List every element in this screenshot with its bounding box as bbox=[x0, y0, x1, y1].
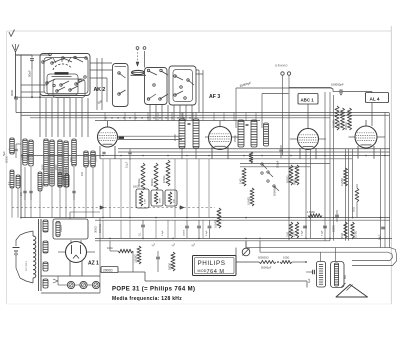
label mains voltage bbox=[26, 260, 28, 271]
svg-text:100pF: 100pF bbox=[275, 160, 279, 168]
coil L1 bbox=[10, 138, 15, 154]
resistor 5000 det2 bbox=[286, 165, 293, 185]
coil L13 bbox=[38, 172, 42, 191]
wire rail x345 bbox=[345, 149, 347, 241]
PHILIPS nameplate bbox=[193, 256, 237, 276]
capacitor 50pF bbox=[16, 55, 34, 97]
resistor 10000 v bbox=[134, 246, 141, 264]
mains plug bbox=[13, 235, 21, 278]
wire rail x330 bbox=[329, 92, 331, 241]
wire top bus left bbox=[32, 55, 50, 97]
label 2pF bbox=[97, 99, 104, 105]
svg-text:500000Ω: 500000Ω bbox=[258, 256, 269, 260]
caption IF bbox=[112, 296, 182, 302]
tuning gang dashed line bbox=[12, 206, 215, 209]
resistor 500 det2 bbox=[293, 165, 299, 185]
wire bus y272 bbox=[100, 272, 307, 288]
coil L9 bbox=[84, 151, 89, 167]
svg-text:0.5MΩ: 0.5MΩ bbox=[246, 197, 250, 205]
coil L8 bbox=[72, 139, 77, 166]
svg-text:50µF: 50µF bbox=[378, 234, 381, 240]
svg-text:0.1µF: 0.1µF bbox=[126, 161, 129, 168]
svg-text:764 M: 764 M bbox=[207, 269, 225, 275]
wire rail x352 bbox=[352, 149, 354, 218]
svg-text:PHILIPS: PHILIPS bbox=[198, 260, 226, 267]
transformer secondary S3 bbox=[43, 262, 48, 271]
resistor 0.5M det bbox=[246, 188, 254, 206]
svg-text:4MΩ: 4MΩ bbox=[341, 233, 344, 238]
wire lamp bus bbox=[53, 276, 92, 285]
coil L12 bbox=[16, 175, 20, 188]
svg-text:0.1µF: 0.1µF bbox=[321, 230, 323, 236]
coil L11 bbox=[10, 170, 14, 188]
transformer T2 core+primary bbox=[20, 219, 41, 291]
tube AL4 V4 bbox=[349, 120, 386, 159]
wire heater bbox=[41, 276, 100, 293]
capacitor 100000pF bbox=[289, 83, 372, 96]
capacitor 1uF out bbox=[306, 270, 314, 283]
svg-text:50pF: 50pF bbox=[27, 70, 31, 77]
label AF3 bbox=[209, 94, 220, 100]
wire bus y120 bbox=[95, 120, 260, 122]
wire bus y115 bbox=[21, 114, 389, 116]
svg-text:10000Ω: 10000Ω bbox=[134, 254, 137, 263]
svg-text:1µF: 1µF bbox=[307, 278, 311, 283]
resistor 1M lower bbox=[286, 222, 293, 238]
capacitor e bbox=[301, 226, 307, 236]
wire bus ticks bbox=[105, 113, 256, 121]
capacitor bias bbox=[156, 251, 160, 272]
svg-text:3·2: 3·2 bbox=[20, 192, 23, 196]
svg-text:50000µF: 50000µF bbox=[261, 266, 272, 270]
capacitor c bbox=[197, 220, 201, 238]
switch pickup bbox=[242, 241, 250, 256]
svg-text:MOD: MOD bbox=[198, 269, 207, 273]
tube ABC1 V3 bbox=[290, 129, 326, 159]
svg-text:100Ω: 100Ω bbox=[283, 256, 289, 260]
svg-text:AL 4: AL 4 bbox=[370, 96, 380, 101]
resistor 50 AL4 bbox=[351, 184, 359, 218]
resistor 0.3M lower bbox=[292, 222, 299, 238]
svg-text:300Ω: 300Ω bbox=[94, 226, 98, 233]
wire fb verticals bbox=[236, 241, 260, 262]
svg-text:2000: 2000 bbox=[160, 197, 162, 203]
wire left rail bbox=[16, 55, 30, 218]
svg-text:0.3M: 0.3M bbox=[292, 232, 295, 237]
caption POPE 31 bbox=[112, 287, 195, 293]
svg-text:1000Ω: 1000Ω bbox=[163, 175, 166, 183]
svg-text:2000Ω: 2000Ω bbox=[103, 268, 113, 272]
svg-text:50000: 50000 bbox=[332, 225, 335, 232]
resistor 5000 mid bbox=[138, 163, 145, 190]
label AZ1 bbox=[88, 261, 99, 267]
capacitor f bbox=[321, 226, 327, 236]
label 50000pF det bbox=[272, 185, 276, 196]
wire bus y241 bbox=[95, 240, 330, 242]
label 50000uF bbox=[261, 266, 272, 270]
wire rail x306 bbox=[305, 149, 307, 238]
label 5uF bbox=[2, 144, 21, 158]
svg-text:25000: 25000 bbox=[183, 229, 185, 236]
capacitor 25000pF b bbox=[183, 220, 189, 238]
labels coil bank extra bbox=[9, 148, 91, 188]
wire switch-to-coil drops bbox=[40, 98, 88, 137]
resistor 3000 mid bbox=[151, 163, 158, 190]
resistor 5000 v bbox=[168, 252, 175, 271]
wire osc drops bbox=[105, 105, 192, 121]
coil L6 bbox=[58, 140, 63, 187]
svg-text:0.5M: 0.5M bbox=[145, 199, 147, 204]
wire speaker top bbox=[321, 248, 336, 262]
resistor 0.1M right bbox=[351, 222, 358, 238]
wire bus y218 bbox=[21, 217, 390, 219]
resistor 1M det bbox=[238, 168, 246, 186]
wire det bus bbox=[240, 164, 330, 167]
resistor 1M h bbox=[107, 241, 133, 272]
resistor 0.2M grid bbox=[331, 106, 339, 130]
coil L5 bbox=[50, 140, 55, 186]
svg-text:0.1µF: 0.1µF bbox=[206, 230, 208, 236]
dial lamp P1 bbox=[67, 281, 74, 288]
rectifier AZ1 V5 bbox=[58, 240, 95, 276]
resistor 2000 box bbox=[101, 267, 118, 273]
dial lamp P3 bbox=[92, 281, 99, 288]
tube AK2 V1 bbox=[96, 121, 183, 162]
wire bus y159 bbox=[100, 158, 352, 160]
svg-text:1.5MΩ: 1.5MΩ bbox=[307, 210, 315, 214]
tuning gang link bbox=[136, 47, 146, 66]
label AL4 bbox=[366, 92, 389, 127]
wire rail x389 bbox=[389, 113, 391, 248]
svg-text:50000: 50000 bbox=[133, 186, 140, 189]
switch S3 contacts bbox=[261, 163, 279, 191]
resistor 500000 fb bbox=[258, 256, 276, 264]
wire bus y220 bbox=[95, 219, 390, 221]
label 50000 ohm bbox=[98, 224, 102, 233]
junction dots buses bbox=[20, 155, 386, 240]
capacitor right rail bbox=[378, 227, 385, 240]
capacitor 50000pF out bbox=[332, 210, 339, 232]
wire coil returns bbox=[12, 167, 93, 218]
wire rail x325 bbox=[324, 92, 326, 241]
wire bus y238 bbox=[95, 237, 392, 239]
gramo terminals bbox=[275, 64, 291, 241]
coil L7 bbox=[64, 141, 69, 187]
svg-text:0.2MΩ: 0.2MΩ bbox=[340, 178, 344, 186]
svg-text:2000: 2000 bbox=[55, 164, 58, 170]
svg-text:6000: 6000 bbox=[10, 89, 14, 96]
label ABC1 bbox=[298, 94, 318, 129]
checkmark bbox=[9, 30, 15, 37]
IF transformer T2 bbox=[234, 120, 269, 147]
wire y93 link bbox=[262, 94, 289, 129]
wire mid drops bbox=[103, 159, 209, 239]
svg-text:Media frequencia: 128 kHz: Media frequencia: 128 kHz bbox=[112, 296, 182, 302]
svg-text:G R A M O: G R A M O bbox=[275, 64, 287, 68]
capacitor 6000pF antenna bbox=[10, 89, 18, 112]
svg-text:AF 3: AF 3 bbox=[209, 94, 220, 100]
svg-text:25000: 25000 bbox=[174, 133, 177, 141]
dial lamp P2 bbox=[80, 281, 87, 288]
svg-text:5MΩ: 5MΩ bbox=[337, 122, 341, 128]
coil L10 bbox=[91, 151, 96, 167]
output transformer T3 bbox=[277, 261, 347, 287]
transformer secondary S1 bbox=[43, 220, 48, 232]
svg-text:1MΩ: 1MΩ bbox=[286, 232, 289, 237]
capacitor mid bbox=[126, 149, 132, 168]
svg-text:100000pF: 100000pF bbox=[331, 83, 344, 87]
wire fb link bbox=[236, 261, 306, 263]
svg-text:3000Ω: 3000Ω bbox=[151, 178, 154, 186]
svg-text:4000Ω: 4000Ω bbox=[344, 122, 348, 130]
wire bus y149 bbox=[118, 148, 390, 150]
coil L3 bbox=[29, 140, 34, 166]
svg-text:50000pF: 50000pF bbox=[272, 185, 276, 196]
svg-text:5µF: 5µF bbox=[2, 151, 6, 156]
IF transformer T1 bbox=[174, 113, 199, 159]
resistor 5M grid bbox=[337, 108, 345, 130]
resistor 0.5M af bbox=[213, 208, 221, 228]
resistor 4M right bbox=[341, 222, 348, 238]
oscillator switch S2 bbox=[113, 51, 204, 113]
HT smoothing box bbox=[53, 212, 100, 239]
svg-text:500Ω: 500Ω bbox=[293, 179, 296, 185]
svg-text:20000: 20000 bbox=[60, 225, 63, 232]
svg-text:POPE 31 (= Philips 764 M): POPE 31 (= Philips 764 M) bbox=[112, 287, 195, 293]
label 300ohm bbox=[94, 218, 101, 293]
resistor 10000 det bbox=[249, 152, 253, 163]
capacitor 25000pF AVC bbox=[236, 81, 332, 128]
wire bus y118 bbox=[30, 117, 330, 119]
svg-text:25000: 25000 bbox=[234, 134, 237, 142]
svg-text:0.1MΩ: 0.1MΩ bbox=[355, 231, 358, 238]
tube AF3 V2 bbox=[205, 121, 238, 159]
svg-text:0.5µF: 0.5µF bbox=[162, 230, 164, 236]
wire bus y152 bbox=[118, 151, 390, 153]
coil L4 bbox=[44, 139, 49, 186]
speaker LS bbox=[336, 283, 368, 297]
resistor mid3 bbox=[163, 160, 170, 186]
coil L15 bbox=[65, 174, 69, 187]
wire feedback loop bbox=[246, 248, 397, 266]
wire bus y112 bbox=[16, 112, 389, 114]
capacitor 0.1uF a bbox=[138, 220, 145, 238]
wire rail x385 bbox=[384, 113, 386, 248]
wire rail x380 bbox=[380, 149, 382, 248]
svg-text:AK 2: AK 2 bbox=[94, 87, 106, 93]
transformer secondary S4 bbox=[43, 279, 48, 288]
antenna bbox=[12, 44, 19, 97]
transformer secondary S2 bbox=[43, 241, 48, 253]
svg-text:0.5MΩ: 0.5MΩ bbox=[213, 220, 217, 228]
wire block links bbox=[90, 58, 112, 110]
coil L14 bbox=[58, 173, 62, 187]
svg-text:AZ 1: AZ 1 bbox=[88, 261, 99, 267]
wire rail x333 bbox=[333, 95, 335, 241]
svg-text:50Ω: 50Ω bbox=[351, 207, 355, 212]
svg-text:150: 150 bbox=[81, 171, 84, 176]
band switch S1 (aerial section) bbox=[15, 53, 90, 98]
potentiometer volume bbox=[133, 186, 197, 248]
wire antenna-node bbox=[16, 96, 71, 98]
label coil values bbox=[6, 155, 85, 196]
coil L2 bbox=[23, 139, 28, 165]
resistor 0.2M AL4 bbox=[340, 168, 348, 186]
wire bus y156 bbox=[21, 155, 390, 157]
svg-text:1MΩ: 1MΩ bbox=[238, 178, 242, 184]
svg-text:127·220 V: 127·220 V bbox=[26, 260, 28, 271]
resistor 1.5M fb bbox=[307, 210, 322, 217]
resistor 100 fb bbox=[280, 256, 292, 264]
resistor 4000 grid bbox=[344, 108, 351, 130]
wire rail x310 bbox=[310, 149, 312, 238]
capacitor 100pF bbox=[275, 145, 282, 168]
svg-text:5000: 5000 bbox=[42, 164, 45, 170]
svg-text:ABC 1: ABC 1 bbox=[301, 97, 315, 102]
svg-text:5000Ω: 5000Ω bbox=[286, 175, 289, 183]
wire rail x348 bbox=[348, 149, 350, 241]
trimmer caps bbox=[23, 191, 75, 200]
label AK2 bbox=[94, 87, 106, 93]
svg-text:5000Ω: 5000Ω bbox=[168, 263, 171, 270]
svg-text:0.5µF: 0.5µF bbox=[301, 230, 303, 236]
capacitor d bbox=[206, 220, 211, 238]
svg-text:50000: 50000 bbox=[96, 155, 98, 162]
